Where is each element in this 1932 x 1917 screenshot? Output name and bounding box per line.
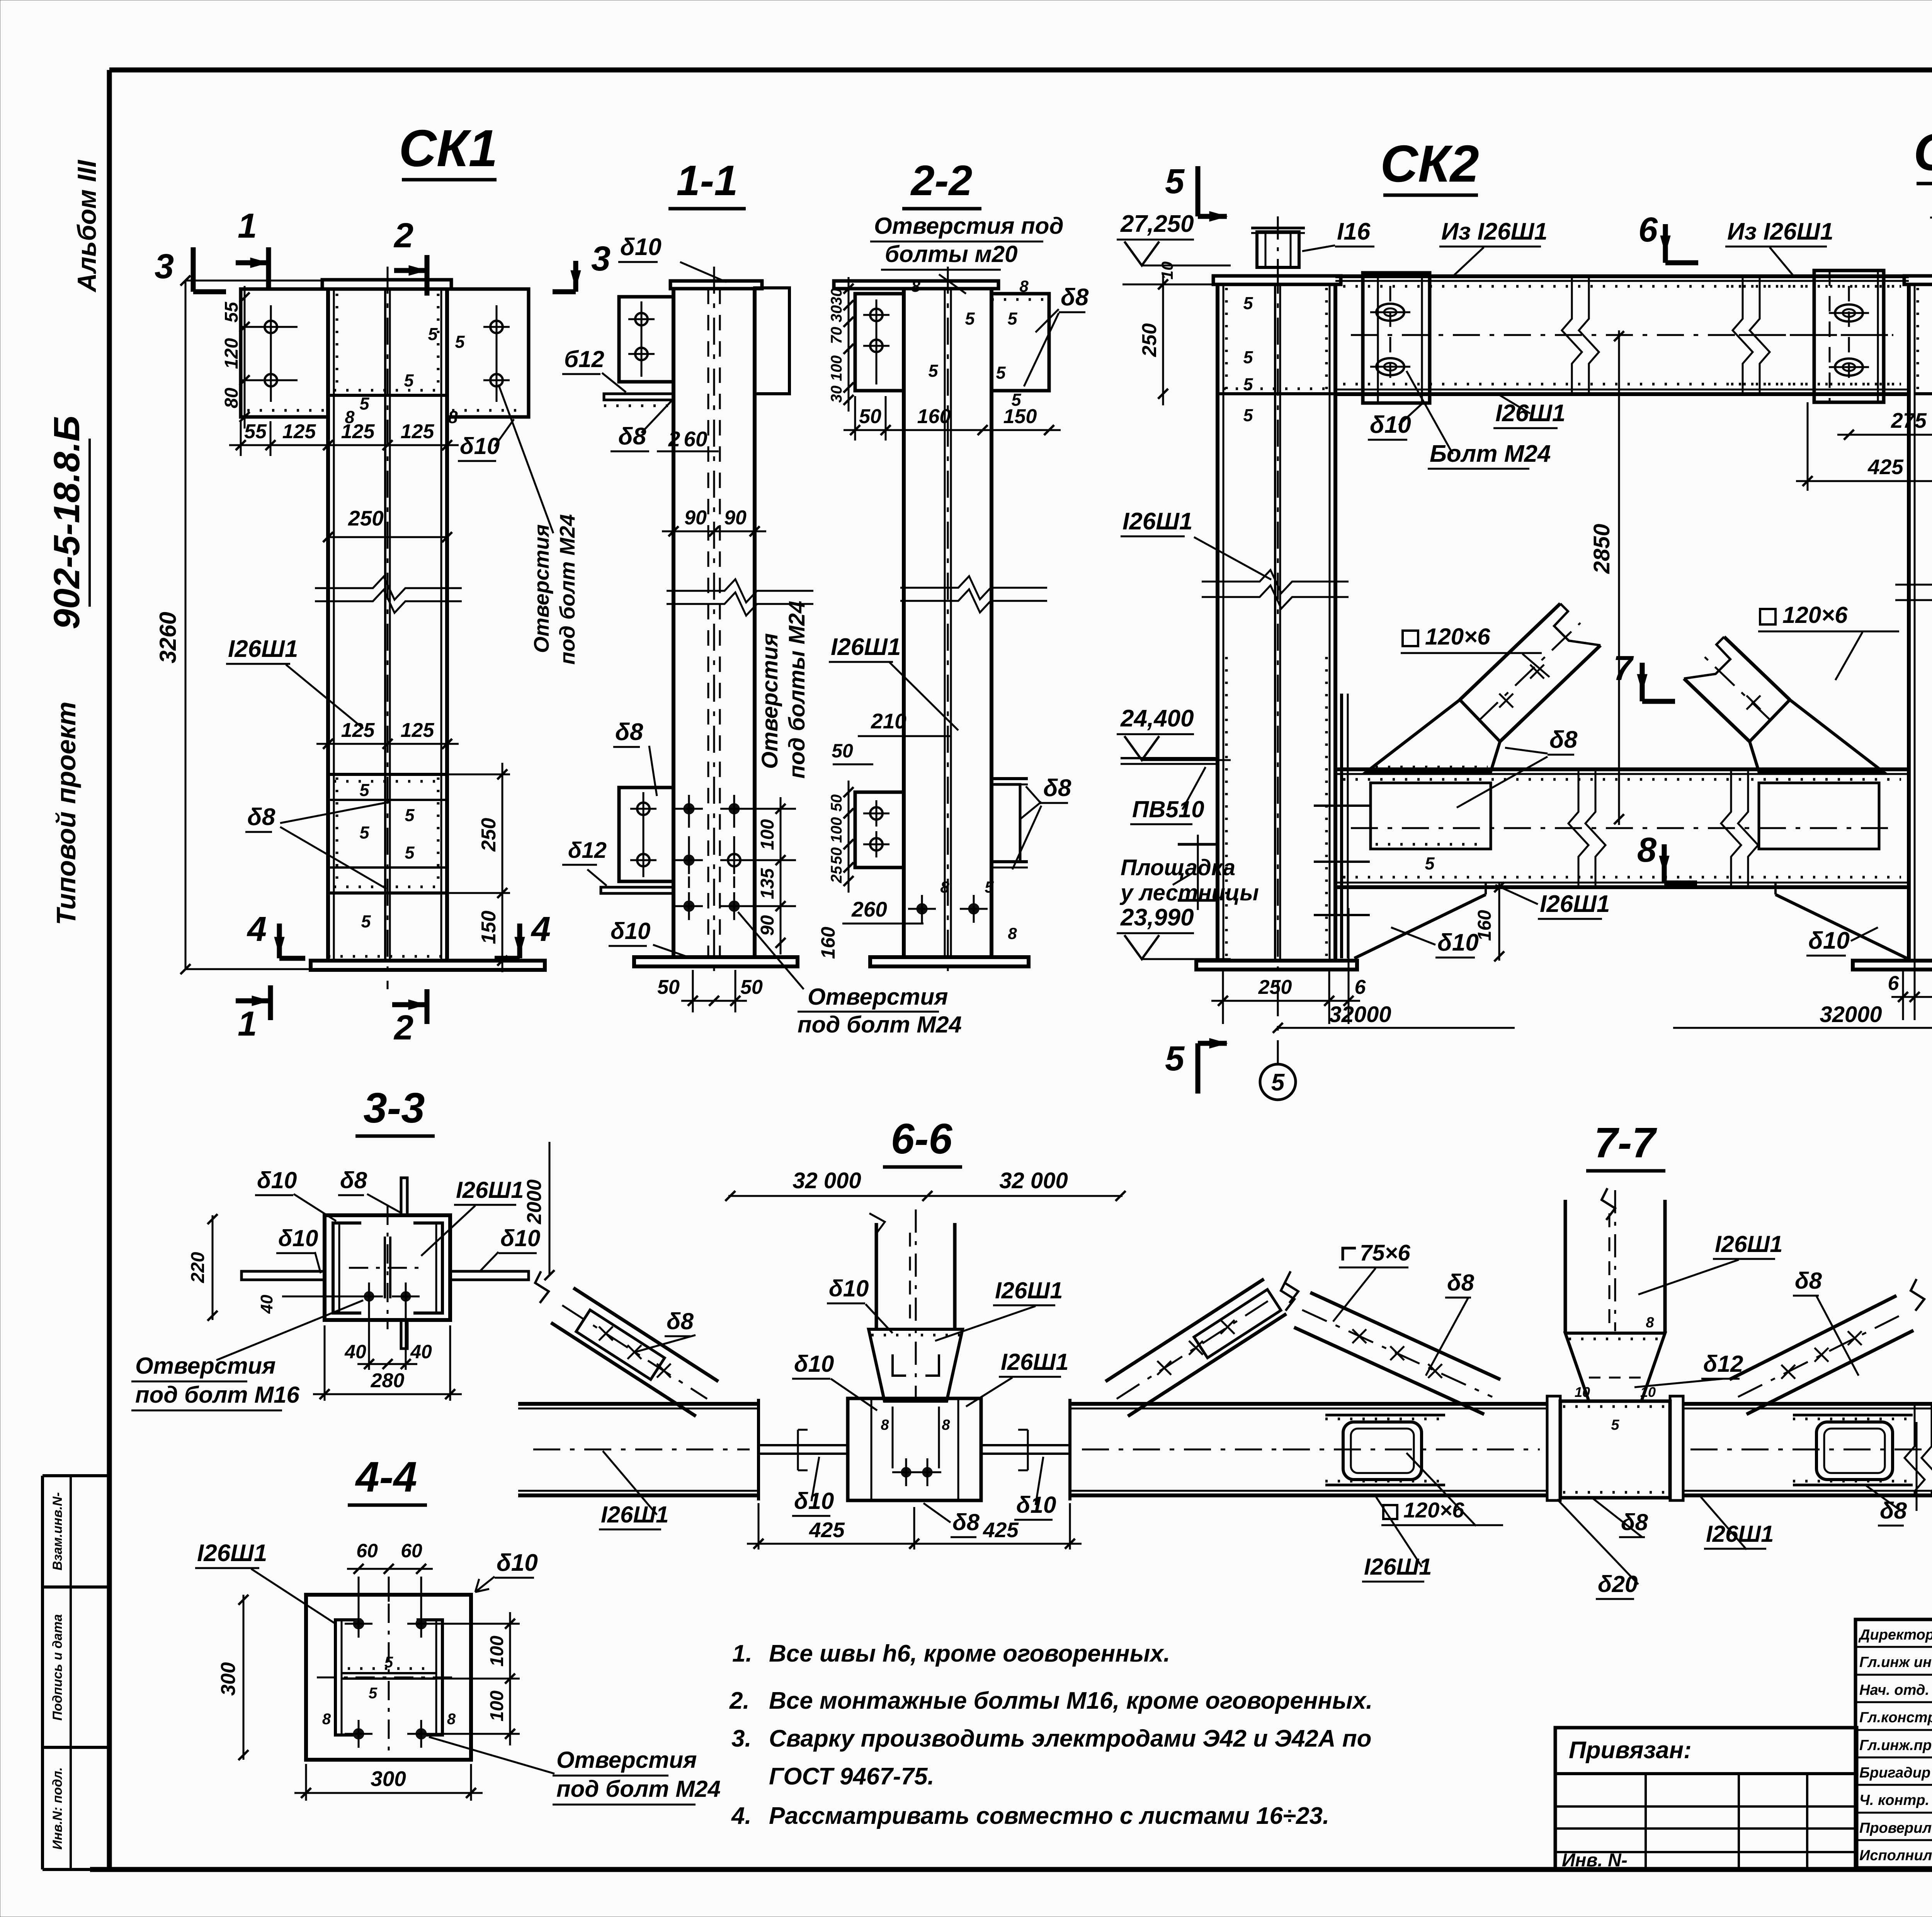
1-1 column body: [672, 289, 675, 957]
svg-text:болты м20: болты м20: [885, 241, 1018, 267]
svg-text:2: 2: [393, 216, 413, 255]
svg-text:3: 3: [155, 247, 174, 286]
1-1 lower bracket plate: [619, 788, 673, 881]
svg-text:40: 40: [257, 1294, 276, 1314]
svg-text:280: 280: [371, 1369, 405, 1392]
svg-text:Из I26Ш1: Из I26Ш1: [1441, 218, 1548, 245]
svg-text:275: 275: [1891, 408, 1927, 432]
svg-text:160: 160: [817, 927, 839, 959]
svg-text:27,250: 27,250: [1120, 211, 1194, 237]
title block: privyazan box: [1555, 1728, 1857, 1869]
7-7 center box: [1560, 1401, 1670, 1498]
svg-text:60: 60: [356, 1540, 378, 1561]
svg-text:5: 5: [996, 363, 1006, 383]
svg-text:10: 10: [1158, 262, 1176, 280]
1-1 base plate: [634, 957, 798, 966]
svg-text:3.: 3.: [731, 1725, 752, 1752]
svg-text:135: 135: [757, 868, 778, 899]
4-4 H-section inside: [335, 1620, 361, 1735]
svg-text:6: 6: [1638, 211, 1658, 249]
2-2 dim 50 160 150: [844, 429, 1061, 431]
svg-text:1: 1: [238, 1005, 257, 1043]
svg-text:425: 425: [1867, 455, 1904, 479]
svg-text:100: 100: [487, 1691, 507, 1721]
svg-text:260: 260: [851, 897, 887, 921]
2-2 right plate: [992, 294, 1049, 391]
3-3 vertical fin top: [401, 1178, 407, 1215]
7-7 right tube slot: [1816, 1422, 1893, 1480]
CK2 column stiffener top: [1218, 392, 1335, 395]
svg-text:23,990: 23,990: [1120, 904, 1194, 931]
CK2 dim 160: [1498, 882, 1500, 961]
CK2 beam end plate with bolts: [1363, 273, 1430, 403]
svg-text:90: 90: [724, 507, 747, 529]
CK1 flange weld ticks: [336, 294, 338, 392]
1-1 dim stack right 100 135 90: [780, 797, 782, 954]
svg-text:Инв.N: подл.: Инв.N: подл.: [50, 1767, 65, 1849]
CK2 dim 2850: [1618, 330, 1620, 825]
svg-text:Исполнил: Исполнил: [1859, 1847, 1932, 1864]
svg-text:Инв. N-: Инв. N-: [1562, 1850, 1628, 1871]
svg-text:40: 40: [344, 1341, 366, 1362]
4-4 dim 300 left: [243, 1595, 245, 1760]
svg-text:δ12: δ12: [1703, 1351, 1743, 1377]
svg-text:δ8: δ8: [952, 1509, 980, 1535]
svg-text:Отверстия: Отверстия: [529, 524, 553, 653]
svg-text:δ10: δ10: [257, 1167, 297, 1193]
svg-text:δ10: δ10: [611, 918, 650, 944]
svg-text:δ8: δ8: [618, 423, 646, 450]
svg-text:4-4: 4-4: [355, 1453, 417, 1501]
svg-text:Рассматривать совместно с л: Рассматривать совместно с листами 16÷23.: [769, 1803, 1329, 1829]
svg-text:I26Ш1: I26Ш1: [456, 1177, 524, 1203]
svg-text:Площадка: Площадка: [1121, 855, 1235, 880]
2-2 lower right plates: [992, 777, 1028, 780]
svg-text:δ10: δ10: [1808, 927, 1850, 954]
svg-text:30: 30: [828, 386, 845, 403]
svg-text:2000: 2000: [523, 1179, 546, 1225]
svg-text:СК1: СК1: [1913, 123, 1932, 181]
svg-text:ПВ510: ПВ510: [1132, 796, 1204, 822]
svg-text:I26Ш1: I26Ш1: [1122, 508, 1192, 535]
svg-text:5: 5: [1243, 374, 1253, 394]
CK1 dim stack top-left 55 120 80: [241, 326, 298, 328]
svg-text:5: 5: [1425, 854, 1435, 873]
svg-text:5: 5: [359, 823, 369, 842]
svg-text:под болт М24: под болт М24: [556, 1776, 721, 1802]
svg-text:8: 8: [1637, 831, 1656, 869]
svg-text:60: 60: [401, 1540, 422, 1561]
svg-text:70: 70: [828, 327, 845, 344]
CK1R left gusset: [1750, 700, 1883, 772]
svg-text:50: 50: [657, 976, 680, 998]
CK1R column weld ticks: [1917, 288, 1919, 391]
svg-text:7: 7: [1613, 649, 1634, 688]
svg-text:δ8: δ8: [615, 719, 643, 745]
1-1 left bracket plate: [619, 297, 673, 382]
7-7 labels: [1343, 1248, 1356, 1260]
svg-text:Привязан:: Привязан:: [1569, 1737, 1692, 1764]
svg-text:Нач. отд.: Нач. отд.: [1859, 1682, 1929, 1698]
svg-text:δ8: δ8: [1061, 284, 1089, 311]
4-4 main plate: [306, 1595, 471, 1760]
svg-text:под болты М24: под болты М24: [784, 601, 810, 779]
svg-text:5: 5: [1165, 162, 1185, 201]
svg-text:160: 160: [917, 405, 951, 428]
7-7 gusset trapezoid: [1565, 1333, 1665, 1401]
svg-text:I26Ш1: I26Ш1: [1495, 400, 1565, 427]
3-3 I-section inside: [333, 1223, 361, 1313]
2-2 dim stack left 30 30 70 100 30: [848, 277, 850, 412]
svg-text:8: 8: [942, 1417, 950, 1433]
svg-text:1-1: 1-1: [677, 157, 738, 204]
CK2 axis bubble 5: [1260, 1064, 1296, 1100]
CK1R upper beam left: [1723, 274, 1909, 278]
svg-text:δ10: δ10: [1437, 929, 1479, 956]
svg-text:5: 5: [1243, 405, 1253, 425]
svg-text:δ10: δ10: [620, 234, 662, 260]
svg-text:5: 5: [428, 324, 438, 344]
svg-text:32000: 32000: [1820, 1002, 1882, 1027]
6-6 left beam: [518, 1402, 759, 1406]
title block: signature table: [1855, 1619, 1932, 1868]
svg-text:10: 10: [1575, 1384, 1590, 1400]
svg-text:δ8: δ8: [667, 1308, 694, 1334]
svg-text:5: 5: [928, 361, 938, 381]
CK1R left bolt plate: [1814, 270, 1884, 402]
svg-text:120: 120: [221, 338, 242, 369]
svg-text:55: 55: [244, 420, 267, 443]
svg-text:Отверстия: Отверстия: [808, 984, 948, 1010]
svg-text:300: 300: [217, 1662, 240, 1696]
svg-text:Сварку производить электро: Сварку производить электродами Э42 и Э42…: [769, 1725, 1372, 1752]
svg-text:1: 1: [238, 207, 257, 245]
svg-text:2.: 2.: [729, 1687, 750, 1714]
3-3 dims 40 40 280: [357, 1363, 417, 1365]
svg-text:50: 50: [832, 740, 853, 762]
CK2 upper beam: [1335, 274, 1909, 278]
svg-text:8: 8: [1646, 1315, 1654, 1331]
7-7 left tube slot: [1343, 1422, 1422, 1480]
svg-text:8: 8: [447, 1711, 456, 1728]
svg-text:8: 8: [881, 1417, 889, 1433]
CK1R left tube label 120x6: [1760, 609, 1776, 624]
svg-text:8: 8: [1008, 924, 1017, 942]
6-6 right beam: [1070, 1402, 1314, 1406]
svg-text:δ8: δ8: [247, 804, 276, 830]
svg-text:25: 25: [828, 866, 845, 883]
svg-text:Отверстия: Отверстия: [135, 1353, 276, 1379]
svg-text:Все монтажные болты М16, кр: Все монтажные болты М16, кроме оговоренн…: [769, 1687, 1372, 1714]
svg-text:I26Ш1: I26Ш1: [197, 1540, 267, 1567]
svg-text:Директор: Директор: [1858, 1627, 1932, 1643]
svg-text:100: 100: [487, 1636, 507, 1667]
CK2 dim 250 left: [1162, 273, 1164, 405]
svg-text:5: 5: [965, 309, 975, 328]
svg-text:2: 2: [668, 427, 680, 451]
svg-text:δ12: δ12: [568, 838, 607, 863]
svg-text:6-6: 6-6: [891, 1115, 953, 1163]
svg-text:5: 5: [455, 332, 465, 352]
svg-text:220: 220: [188, 1252, 208, 1283]
svg-text:32 000: 32 000: [793, 1168, 861, 1193]
svg-text:100: 100: [828, 356, 845, 381]
7-7 cover strips: [1325, 1414, 1445, 1417]
1-1 cap plate: [670, 281, 762, 289]
svg-text:3: 3: [591, 240, 611, 278]
svg-text:δ10: δ10: [1370, 412, 1411, 438]
svg-text:δ10: δ10: [460, 433, 500, 459]
CK2 column weld ticks: [1225, 288, 1228, 391]
svg-text:5: 5: [359, 394, 369, 413]
CK1 column web lines: [384, 289, 386, 961]
svg-text:3260: 3260: [155, 612, 181, 663]
svg-text:δ8: δ8: [1549, 726, 1578, 753]
svg-text:под болт М16: под болт М16: [135, 1382, 300, 1408]
CK1R dims 32000 32000: [1673, 1027, 1932, 1029]
svg-text:Бригадир: Бригадир: [1859, 1765, 1930, 1781]
svg-text:2850: 2850: [1589, 524, 1614, 574]
CK2 cap plate: [1213, 276, 1341, 284]
CK2 lower beam: [1335, 767, 1909, 771]
svg-text:δ8: δ8: [1447, 1270, 1475, 1296]
svg-text:5: 5: [1611, 1417, 1619, 1433]
CK2 vertical plate at column: [1340, 694, 1343, 958]
6-6 right diagonal: [1128, 1314, 1286, 1416]
svg-text:5: 5: [405, 843, 415, 862]
CK1 dim 125 125 mid: [316, 743, 459, 745]
svg-text:I26Ш1: I26Ш1: [995, 1277, 1063, 1303]
3-3 vertical fin bottom: [401, 1320, 407, 1349]
CK2 column body: [1216, 284, 1219, 961]
4-4 bolts: [353, 1618, 364, 1629]
svg-text:СК2: СК2: [1380, 134, 1479, 193]
svg-text:300: 300: [371, 1767, 406, 1791]
svg-text:Отверстия под: Отверстия под: [874, 213, 1064, 239]
svg-text:250: 250: [1258, 976, 1292, 998]
CK2 tube label 120x6: [1403, 631, 1418, 646]
CK1 left bracket plate: [241, 289, 328, 417]
svg-text:5: 5: [985, 878, 994, 896]
svg-text:Ч. контр.: Ч. контр.: [1859, 1792, 1929, 1808]
svg-text:5: 5: [1243, 293, 1253, 313]
svg-text:50: 50: [740, 976, 763, 998]
2-2 break mark: [900, 576, 1047, 599]
CK1 column I26Sh1 flanges: [326, 289, 330, 961]
CK2 dim 32000: [1278, 1027, 1515, 1029]
6-6 column stub: [875, 1223, 878, 1329]
CK2 upper beam break: [1562, 276, 1582, 394]
1-1 dim 90 90: [662, 531, 766, 532]
svg-text:б12: б12: [564, 346, 604, 372]
svg-text:Гл.инж.пр.: Гл.инж.пр.: [1859, 1737, 1932, 1754]
svg-text:50: 50: [859, 405, 881, 428]
CK2 ladder bracket: [1178, 844, 1218, 900]
svg-text:150: 150: [1003, 405, 1037, 428]
svg-text:120×6: 120×6: [1425, 624, 1490, 650]
7-7 left beam: [1275, 1402, 1547, 1406]
CK2 bottom dims 250 6: [1222, 970, 1224, 1024]
svg-text:5: 5: [405, 805, 415, 825]
svg-text:δ10: δ10: [794, 1351, 834, 1377]
CK1R bottom dims 6 250 6: [1902, 970, 1904, 1020]
7-7 right diagonal angle: [1747, 1330, 1913, 1414]
CK1R column break: [1895, 573, 1932, 596]
CK1 lower stiffener plates: [328, 773, 447, 776]
svg-text:125: 125: [341, 420, 375, 443]
svg-text:δ8: δ8: [340, 1167, 367, 1193]
6-6 connection strips: [759, 1444, 848, 1446]
svg-text:5: 5: [404, 371, 414, 390]
2-2 dim stack left lower 50 100 50 25: [848, 781, 850, 893]
CK2 I16 stub: [1257, 232, 1299, 267]
3-3 dim 2000: [549, 1142, 551, 1275]
svg-text:I26Ш1: I26Ш1: [1001, 1349, 1069, 1375]
svg-text:Взам.инв.N-: Взам.инв.N-: [50, 1492, 65, 1571]
svg-text:I26Ш1: I26Ш1: [1540, 891, 1610, 917]
CK2 base plate: [1196, 961, 1357, 970]
1-1 break mark: [667, 579, 813, 602]
margin stamp table: [43, 1474, 109, 1477]
svg-text:I26Ш1: I26Ш1: [601, 1502, 669, 1527]
2-2 bottom bolts: [917, 903, 927, 914]
CK1 cap plate: [322, 280, 451, 289]
CK1R column stiffener: [1915, 392, 1932, 395]
svg-text:5: 5: [361, 912, 371, 931]
svg-text:30: 30: [828, 288, 845, 306]
svg-text:75×6: 75×6: [1360, 1240, 1410, 1266]
2-2 lower left plate: [855, 792, 904, 867]
svg-text:32000: 32000: [1329, 1002, 1391, 1027]
svg-text:55: 55: [221, 301, 242, 323]
1-1 top right rib plate: [755, 288, 789, 394]
svg-text:3-3: 3-3: [364, 1084, 425, 1132]
svg-text:5: 5: [1271, 1069, 1285, 1096]
svg-text:4: 4: [531, 910, 551, 949]
svg-text:8: 8: [1019, 277, 1029, 295]
CK1 dim 3260 overall: [185, 281, 187, 969]
svg-text:8: 8: [448, 407, 457, 427]
svg-text:120×6: 120×6: [1782, 602, 1848, 628]
svg-text:Все швы h6, кроме оговоренн: Все швы h6, кроме оговоренных.: [769, 1640, 1170, 1667]
svg-text:Проверил: Проверил: [1859, 1820, 1932, 1836]
svg-text:50: 50: [828, 847, 845, 865]
svg-text:902-5-18.8.Б: 902-5-18.8.Б: [46, 415, 87, 629]
svg-text:8: 8: [322, 1711, 331, 1728]
svg-text:32 000: 32 000: [999, 1168, 1068, 1193]
2-2 left plate: [855, 294, 904, 391]
3-3 main plate: [325, 1215, 450, 1320]
svg-text:8: 8: [940, 878, 949, 896]
svg-text:125: 125: [401, 420, 435, 443]
CK1R column body: [1907, 284, 1911, 961]
svg-text:Гл.констр: Гл.констр: [1859, 1709, 1932, 1726]
6-6 left diagonal: [551, 1323, 696, 1416]
1-1 dim 50 50 bottom: [681, 1000, 747, 1002]
svg-text:160: 160: [1475, 910, 1495, 941]
6-6 right diagonal bracket: [1194, 1289, 1281, 1358]
6-6 center box: [848, 1398, 981, 1500]
svg-text:Из I26Ш1: Из I26Ш1: [1727, 218, 1833, 245]
CK1 top stiffener: [328, 394, 447, 397]
CK2 walkway line PV510: [1121, 757, 1218, 759]
svg-text:δ10: δ10: [497, 1550, 538, 1576]
svg-text:ГОСТ 9467-75.: ГОСТ 9467-75.: [769, 1763, 934, 1790]
1-1 shelf plate d8: [604, 394, 673, 400]
svg-text:у лестницы: у лестницы: [1119, 880, 1259, 905]
svg-text:2: 2: [393, 1009, 413, 1047]
svg-text:5: 5: [1243, 347, 1253, 367]
CK1 dim row 55 125 125 125: [229, 444, 459, 446]
svg-text:5: 5: [1165, 1039, 1185, 1078]
2-2 base plate: [870, 957, 1029, 966]
4-4 dim 300 bottom: [294, 1792, 483, 1794]
CK1R lower beam left: [1335, 767, 1909, 771]
svg-text:Типовой проект: Типовой проект: [51, 702, 81, 925]
svg-text:4: 4: [247, 910, 267, 949]
CK1 break mark: [315, 577, 462, 600]
svg-text:Отверстия: Отверстия: [757, 633, 782, 769]
svg-text:125: 125: [282, 420, 316, 443]
svg-text:Альбом III: Альбом III: [72, 159, 102, 293]
CK1R base triangles: [1776, 895, 1907, 958]
3-3 side plates: [241, 1271, 325, 1280]
7-7 left diagonal angle: [1294, 1327, 1484, 1414]
CK1R left diagonal tube: [1724, 637, 1790, 700]
CK1 base plate: [311, 961, 545, 970]
svg-text:Отверстия: Отверстия: [556, 1747, 697, 1773]
svg-text:125: 125: [401, 719, 435, 742]
CK2 base triangle stiffener: [1354, 895, 1486, 958]
svg-text:δ8: δ8: [1043, 775, 1071, 801]
6-6 left diagonal bracket: [576, 1310, 665, 1379]
svg-text:6: 6: [1355, 976, 1366, 998]
CK1R cap plate: [1904, 276, 1932, 284]
svg-text:24,400: 24,400: [1120, 705, 1194, 732]
svg-text:2-2: 2-2: [910, 157, 973, 204]
svg-text:250: 250: [348, 506, 384, 530]
CK1R dims 275 275: [1837, 434, 1932, 436]
6-6 dims 425 425: [747, 1543, 1082, 1545]
2-2 cap plate: [834, 281, 998, 289]
3-3 bolts: [364, 1291, 374, 1301]
CK1 dim 250 150 right: [447, 774, 510, 776]
svg-text:δ8: δ8: [1880, 1498, 1907, 1524]
1-1 bolt holes on column: [684, 803, 694, 814]
CK2 gusset web plate: [1371, 783, 1491, 849]
svg-text:7-7: 7-7: [1594, 1119, 1658, 1167]
1-1 shelf plate d12 lower: [601, 887, 673, 893]
2-2 column body: [902, 289, 906, 957]
CK1 right bracket plate: [447, 289, 529, 417]
svg-text:425: 425: [983, 1518, 1019, 1542]
svg-text:150: 150: [478, 911, 500, 944]
7-7 labels bottom: [1383, 1505, 1397, 1519]
7-7 column stub: [1564, 1200, 1567, 1333]
4-4 dims 100 100 right: [428, 1623, 520, 1625]
svg-text:100: 100: [828, 817, 845, 843]
svg-text:δ10: δ10: [278, 1225, 318, 1251]
6-6 inner tube dashes: [893, 1354, 906, 1376]
svg-text:40: 40: [410, 1341, 432, 1362]
svg-text:90: 90: [757, 915, 778, 936]
svg-text:под болт М24: под болт М24: [798, 1012, 962, 1038]
svg-text:120×6: 120×6: [1403, 1498, 1464, 1522]
svg-text:I26Ш1: I26Ш1: [831, 634, 901, 660]
svg-text:1.: 1.: [732, 1640, 752, 1667]
svg-text:δ10: δ10: [829, 1276, 869, 1301]
svg-text:6: 6: [1888, 972, 1900, 995]
